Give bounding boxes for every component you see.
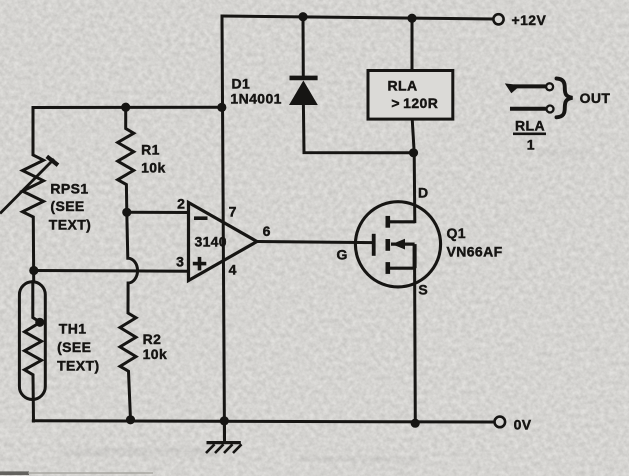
svg-text:RLA: RLA: [515, 118, 545, 134]
svg-text:OUT: OUT: [580, 90, 611, 106]
svg-text:VN66AF: VN66AF: [447, 244, 503, 260]
svg-text:RPS1: RPS1: [50, 181, 88, 197]
svg-text:G: G: [337, 246, 348, 262]
svg-text:R2: R2: [143, 331, 162, 347]
svg-text:TEXT): TEXT): [57, 358, 99, 374]
svg-text:RLA: RLA: [388, 78, 418, 94]
svg-text:(SEE: (SEE: [50, 198, 84, 214]
svg-text:10k: 10k: [141, 160, 166, 176]
svg-text:2: 2: [177, 196, 185, 212]
svg-text:10k: 10k: [143, 346, 168, 362]
svg-text:S: S: [418, 282, 427, 298]
svg-text:1N4001: 1N4001: [230, 90, 281, 106]
svg-text:(SEE: (SEE: [57, 339, 91, 355]
svg-text:4: 4: [229, 261, 237, 277]
svg-text:+12V: +12V: [512, 12, 547, 28]
svg-text:TEXT): TEXT): [49, 217, 91, 233]
svg-text:0V: 0V: [514, 417, 532, 433]
svg-text:6: 6: [263, 223, 271, 239]
svg-text:7: 7: [229, 204, 237, 220]
svg-text:1: 1: [527, 137, 535, 153]
svg-text:D1: D1: [232, 75, 251, 91]
svg-text:Q1: Q1: [447, 225, 466, 241]
svg-text:D: D: [418, 185, 428, 201]
svg-text:TH1: TH1: [59, 321, 87, 337]
svg-text:R1: R1: [141, 142, 160, 158]
svg-text:> 120R: > 120R: [391, 95, 438, 111]
svg-text:3140: 3140: [195, 234, 227, 250]
svg-text:3: 3: [176, 253, 184, 269]
